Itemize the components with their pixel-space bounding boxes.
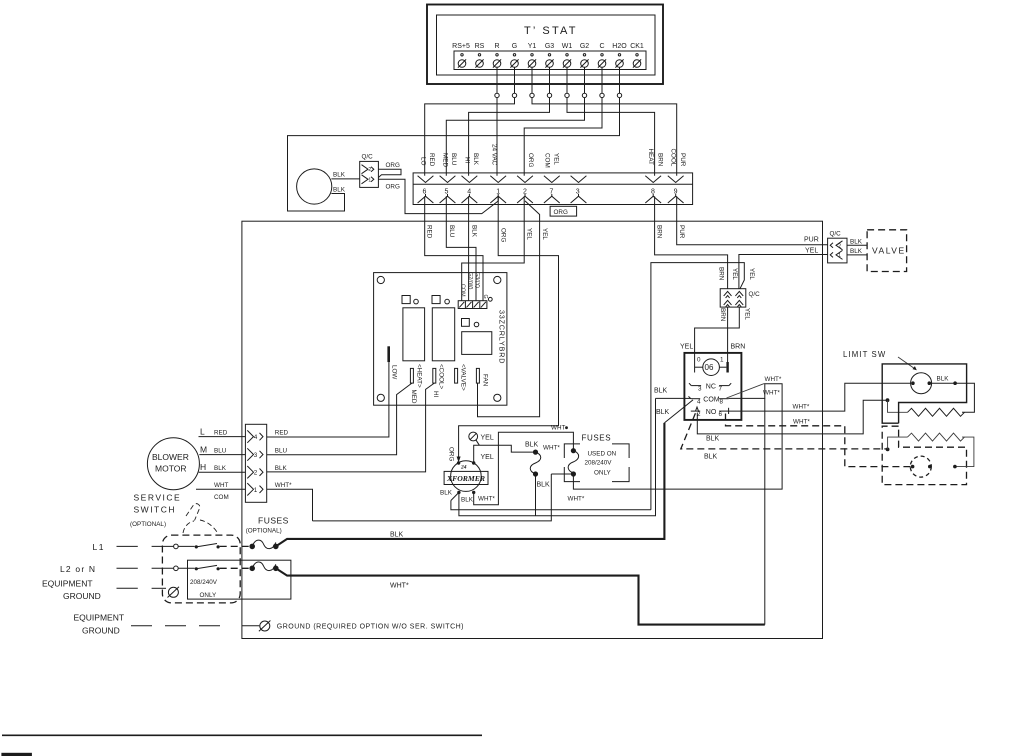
YEL wire transformer to fuse: [474, 445, 535, 463]
footer black bar: [1, 753, 32, 756]
svg-text:G2/(W): G2/(W): [467, 272, 473, 290]
svg-text:PUR: PUR: [804, 237, 819, 244]
blower connector spades 4,3,2,1: [247, 430, 263, 495]
svg-text:BLK: BLK: [440, 490, 453, 497]
WHT* dashed wire to limit 2: [726, 414, 912, 467]
transformer circle: [451, 461, 482, 492]
wire R straight to terminal 1: [496, 98, 498, 176]
svg-text:BLK: BLK: [461, 497, 474, 504]
svg-text:WHT*: WHT*: [390, 583, 409, 590]
svg-text:BRN: BRN: [719, 308, 726, 322]
svg-text:YEL: YEL: [731, 268, 738, 280]
relay NO contacts: [691, 407, 729, 414]
svg-text:YEL: YEL: [680, 344, 693, 351]
wire C jog to terminal 2: [524, 98, 602, 176]
svg-text:24 VAC: 24 VAC: [491, 144, 498, 166]
chassis ground screw: [260, 621, 270, 631]
svg-text:GROUND: GROUND: [82, 626, 120, 636]
transformer top terminals: [457, 461, 460, 464]
svg-text:WHT*: WHT*: [275, 482, 292, 489]
valve Q/C connector: [828, 238, 847, 263]
svg-text:BLU: BLU: [214, 448, 227, 455]
Q/C right terminal spades (YEL): [735, 291, 743, 307]
valve Q/C pin 1 spade: [830, 250, 842, 259]
wire YEL strip2 diagonal to board FAN pin: [478, 201, 540, 417]
thermostat T'STAT inner box: [437, 15, 656, 75]
svg-text:L2 or N: L2 or N: [60, 564, 96, 574]
svg-text:R: R: [494, 43, 499, 50]
wire COOL/HI pin to blower BLK: [267, 383, 435, 472]
element 2 feed thin wire: [888, 437, 908, 449]
svg-text:G2: G2: [580, 43, 589, 50]
svg-text:PUR: PUR: [679, 153, 686, 167]
svg-text:2: 2: [523, 189, 527, 196]
svg-text:WHT*: WHT*: [543, 445, 560, 452]
ground screw upper: [168, 587, 178, 597]
svg-text:4: 4: [697, 399, 701, 406]
svg-text:YEL: YEL: [748, 268, 755, 280]
inducer Q/C connector: [360, 161, 379, 187]
wire LO pin down to blower RED: [267, 362, 389, 437]
svg-text:HI: HI: [464, 157, 471, 164]
svg-text:RED: RED: [428, 153, 435, 167]
ORG label box below strip: [550, 206, 577, 216]
svg-text:9: 9: [674, 189, 678, 196]
svg-text:3: 3: [576, 189, 580, 196]
thermostat T'STAT outer box: [427, 5, 663, 85]
svg-text:YEL: YEL: [553, 153, 560, 165]
Q/C left terminal spades (BRN): [724, 291, 732, 307]
svg-text:G3/(Y): G3/(Y): [474, 272, 480, 288]
footer underline: [2, 734, 482, 736]
L1 switch pole: [174, 544, 179, 549]
svg-text:COOL: COOL: [670, 149, 677, 167]
svg-text:BLK: BLK: [850, 248, 863, 255]
svg-text:ONLY: ONLY: [200, 592, 217, 599]
svg-text:M: M: [200, 445, 207, 455]
thin wire dot down to element 1: [888, 400, 908, 412]
svg-text:33ZCRLYBRD: 33ZCRLYBRD: [498, 310, 507, 364]
svg-text:YEL: YEL: [481, 435, 494, 442]
svg-text:(OPTIONAL): (OPTIONAL): [130, 521, 166, 528]
board small square + led: [462, 319, 470, 327]
svg-text:RED: RED: [426, 225, 433, 239]
svg-text:4: 4: [467, 189, 471, 196]
blower wires L M H COM: [199, 436, 246, 438]
svg-text:NC: NC: [706, 383, 716, 390]
208/240V fuse right: [571, 448, 576, 453]
svg-text:CK1: CK1: [630, 43, 644, 50]
svg-text:USED ON: USED ON: [588, 451, 617, 458]
board component square: [462, 332, 492, 355]
svg-text:BRN: BRN: [731, 344, 746, 351]
svg-text:BLK: BLK: [706, 436, 720, 443]
svg-text:LOW: LOW: [391, 365, 398, 379]
svg-text:C: C: [599, 43, 604, 50]
BRN wire Q/C to relay coil pin1: [727, 307, 729, 363]
svg-text:BRN: BRN: [657, 153, 664, 167]
T'STAT terminal strip box: [454, 51, 646, 70]
BLK net from xformer to relay COM riser: [459, 398, 656, 515]
blower motor circle: [147, 438, 199, 490]
BLK dashed wire relay NO pin2 to element 2: [681, 413, 886, 449]
svg-text:ONLY: ONLY: [594, 470, 611, 477]
service switch dashed box: [162, 535, 240, 603]
svg-text:BLK: BLK: [471, 225, 478, 238]
leader from label to switch: [898, 357, 916, 369]
svg-text:0: 0: [697, 357, 701, 364]
Q/C pin 1 spade: [362, 175, 374, 184]
wire BLU strip5 to board G3(Y): [446, 196, 476, 301]
svg-text:1: 1: [496, 189, 500, 196]
svg-text:RS: RS: [475, 43, 485, 50]
wire PUR strip9 to valve Q/C pin2: [677, 196, 828, 245]
WHT* blower common run: [313, 474, 552, 521]
svg-text:3: 3: [698, 385, 702, 392]
inducer motor: [297, 169, 332, 204]
svg-text:BLK: BLK: [537, 482, 551, 489]
svg-text:XFORMER: XFORMER: [446, 474, 485, 483]
wire RED strip6 to board G: [425, 196, 483, 301]
svg-text:<HEAT>: <HEAT>: [415, 364, 422, 388]
svg-text:HI: HI: [432, 391, 439, 398]
terminal strip spade chevrons top and bottom: [418, 176, 684, 203]
YEL screw terminal: [469, 432, 478, 441]
svg-text:4: 4: [254, 434, 258, 441]
board relay K1: [403, 308, 425, 361]
svg-text:BRN: BRN: [718, 267, 725, 281]
blower connector block: [245, 424, 266, 502]
svg-text:7: 7: [719, 385, 723, 392]
svg-text:Q/C: Q/C: [749, 291, 761, 298]
junction dot element 2 feed: [886, 448, 890, 452]
svg-text:8: 8: [720, 399, 724, 406]
svg-text:BLK: BLK: [656, 409, 670, 416]
wire limit1 to element1 right end: [955, 383, 974, 412]
svg-text:BLK: BLK: [390, 532, 404, 539]
blower WHT* wire to common net: [267, 489, 313, 521]
limit switch 1 circle: [911, 373, 932, 394]
board terminal block led: [488, 297, 492, 301]
svg-text:YEL: YEL: [744, 308, 751, 320]
svg-text:2: 2: [254, 470, 258, 477]
xformer left BLK diagonal: [451, 492, 459, 500]
svg-text:WHT: WHT: [551, 425, 565, 432]
wire YEL strip2 to board COM: [462, 196, 525, 301]
svg-text:WHT*: WHT*: [763, 390, 780, 397]
svg-text:BLK: BLK: [850, 239, 863, 246]
wire W1 jog to terminal 8: [567, 98, 655, 176]
BLK wires Q/C to valve: [847, 244, 867, 246]
svg-text:L: L: [200, 427, 205, 437]
svg-text:ORG: ORG: [554, 209, 568, 216]
limit switch 2 dashed circle: [910, 456, 931, 477]
wire BLK strip4 to board G2(W): [468, 196, 470, 301]
svg-text:RED: RED: [275, 430, 289, 437]
svg-text:COM: COM: [703, 397, 720, 404]
svg-text:LIMIT SW: LIMIT SW: [843, 350, 886, 359]
T'STAT screw terminals (11): [458, 54, 641, 68]
svg-text:BLOWER: BLOWER: [152, 452, 189, 462]
svg-text:MED: MED: [442, 153, 449, 167]
relay board 33ZCRLYBRD outline: [374, 273, 507, 406]
board relay K1 indicator square + led: [402, 296, 410, 304]
svg-text:208/240V: 208/240V: [585, 460, 613, 467]
board 4-screw terminal block: [458, 301, 487, 309]
svg-text:G3: G3: [545, 43, 554, 50]
terminal strip numbers: [423, 189, 678, 196]
L1 BLK feed heavy wire: [276, 423, 665, 547]
svg-text:ORG: ORG: [448, 447, 455, 461]
svg-text:BLK: BLK: [937, 375, 950, 382]
svg-text:ORG: ORG: [386, 162, 400, 169]
board relay K2: [432, 308, 454, 361]
fuse right top wire WHT* to transformer: [474, 432, 574, 505]
plug connector circles: [495, 93, 622, 97]
transformer bottom terminals: [457, 491, 460, 494]
board mounting holes: [377, 276, 384, 283]
big equipment outer box: [242, 221, 823, 638]
svg-text:G: G: [512, 43, 517, 50]
svg-text:1: 1: [838, 253, 841, 259]
svg-text:H2O: H2O: [612, 43, 627, 50]
BLK diagonal wire from L1 feed to relay COM: [664, 400, 693, 423]
L2 WHT* feed heavy wire: [276, 568, 765, 624]
svg-text:NO: NO: [706, 409, 717, 416]
wire BRN strip8 to Q/C: [655, 196, 728, 289]
board HEAT pin: [410, 368, 413, 383]
svg-text:T’ STAT: T’ STAT: [524, 25, 578, 37]
WHT* wire from relay COM pin8 to fuse net: [573, 384, 782, 489]
24V fuse left: [533, 450, 538, 455]
svg-text:6: 6: [423, 189, 427, 196]
T'STAT terminal labels: [452, 43, 644, 50]
wire YEL transformer riser to Q/C upper right: [651, 263, 744, 510]
svg-text:YEL: YEL: [541, 228, 548, 240]
svg-text:BLK: BLK: [654, 388, 668, 395]
dashed link L1 to fuse: [220, 545, 250, 547]
toggle switch icon: [183, 504, 217, 533]
svg-text:BLK: BLK: [704, 454, 718, 461]
fuse left bottom wire to BLK net: [535, 474, 537, 516]
vertical wire colour labels below strip: [426, 225, 686, 242]
svg-text:L1: L1: [93, 542, 105, 552]
Q/C pin 2 spade: [362, 165, 374, 174]
terminal strip midline: [413, 183, 692, 185]
svg-text:WHT*: WHT*: [765, 376, 782, 383]
svg-text:LO: LO: [420, 157, 427, 166]
WHT* leader to relay COM pin8: [727, 384, 765, 399]
svg-text:WHT*: WHT*: [793, 418, 810, 425]
svg-text:COM: COM: [214, 494, 229, 501]
wire ORG strip1 down to transformer: [459, 196, 559, 459]
svg-text:208/240V: 208/240V: [190, 579, 218, 586]
heater 2 dashed box with notch: [882, 426, 966, 484]
svg-text:HEAT: HEAT: [647, 149, 654, 165]
svg-text:6: 6: [719, 411, 723, 418]
svg-text:COM: COM: [460, 284, 466, 297]
board COOL pin: [433, 368, 436, 383]
BLK pigtail on limit 1: [929, 382, 955, 384]
svg-text:<COOL>: <COOL>: [438, 364, 445, 390]
svg-text:YEL: YEL: [805, 248, 818, 255]
arrowhead ORG into transformer terminal: [457, 457, 461, 463]
svg-text:YEL: YEL: [481, 454, 494, 461]
wires from T'STAT screws down to plug circles: [497, 67, 620, 93]
svg-text:MOTOR: MOTOR: [155, 464, 186, 474]
relay COM contacts: [689, 396, 729, 398]
wire G jog to terminal 6: [425, 98, 515, 176]
svg-text:WHT*: WHT*: [568, 496, 585, 503]
svg-text:MED: MED: [410, 390, 417, 404]
BLK wire relay NO pin2 down to heater feed: [697, 400, 886, 434]
svg-text:(OPTIONAL): (OPTIONAL): [246, 528, 282, 535]
transformer XFORMER label box: [444, 471, 488, 484]
L2 switch pole: [174, 566, 179, 571]
svg-text:1: 1: [720, 357, 724, 364]
relay NC contacts: [689, 383, 731, 385]
wire Y1 jog to terminal 9: [532, 98, 677, 176]
junction dot heater 1 feed: [886, 398, 890, 402]
svg-text:2: 2: [368, 167, 371, 173]
svg-text:PUR: PUR: [678, 225, 685, 239]
208/240V ONLY box: [188, 560, 291, 599]
wire G3 jog to terminal 4: [469, 98, 550, 176]
WHT* wire relay NO pin6 to limit switch: [729, 383, 911, 411]
relay coil circle 06: [703, 359, 720, 376]
svg-text:ORG: ORG: [386, 184, 400, 191]
svg-text:1: 1: [254, 487, 258, 494]
FUSES bracket box: [564, 444, 629, 482]
vertical Q/C connector box: [720, 289, 746, 307]
svg-text:RS+5: RS+5: [452, 43, 470, 50]
dashed lead to chassis ground: [131, 625, 259, 627]
heater element 2 zigzag: [908, 433, 965, 441]
svg-text:W1: W1: [562, 43, 573, 50]
svg-text:EQUIPMENT: EQUIPMENT: [74, 613, 125, 623]
fuse L1: [249, 544, 255, 550]
svg-text:RED: RED: [214, 430, 228, 437]
fuse L2: [249, 566, 255, 572]
svg-text:BLK: BLK: [333, 187, 346, 194]
svg-text:1: 1: [368, 177, 371, 183]
svg-text:BLK: BLK: [275, 465, 288, 472]
board VALVE pin: [455, 368, 458, 383]
svg-text:06: 06: [705, 363, 714, 372]
svg-text:YEL: YEL: [526, 228, 533, 240]
wire G2 jog to terminal 5: [446, 98, 584, 176]
ORG folded stub from Q/C pin 2: [378, 169, 401, 177]
svg-text:WHT*: WHT*: [478, 496, 495, 503]
vertical wire colour labels above strip: [420, 144, 687, 168]
svg-text:Y1: Y1: [528, 43, 537, 50]
svg-text:FUSES: FUSES: [258, 516, 289, 526]
svg-text:EQUIPMENT: EQUIPMENT: [42, 579, 93, 589]
svg-text:5: 5: [444, 189, 448, 196]
svg-text:2: 2: [838, 243, 841, 249]
svg-text:Q/C: Q/C: [830, 231, 842, 238]
ORG wire from Q/C pin 1 to strip terminal 1: [378, 179, 498, 213]
svg-text:ORG: ORG: [500, 228, 507, 242]
svg-text:BLK: BLK: [214, 465, 227, 472]
svg-text:FUSES: FUSES: [582, 434, 612, 443]
svg-text:WHT*: WHT*: [793, 404, 810, 411]
relay 06 box: [684, 353, 741, 420]
board relay K2 indicator square + led: [432, 296, 440, 304]
svg-text:BLK: BLK: [525, 441, 539, 448]
svg-text:SERVICE: SERVICE: [134, 493, 182, 503]
wire YEL valve Q/C pin1: [739, 255, 828, 289]
inducer BLK wire to Q/C pin 1: [331, 178, 359, 180]
svg-text:H: H: [200, 462, 206, 472]
BLK wire from transformer to relay COM left: [656, 397, 685, 399]
svg-text:BLU: BLU: [448, 225, 455, 238]
wire HEAT/MED pin to blower BLU: [267, 383, 412, 455]
svg-text:GROUND (REQUIRED OPTION W/O SE: GROUND (REQUIRED OPTION W/O SER. SWITCH): [277, 624, 464, 631]
svg-text:BLU: BLU: [275, 448, 288, 455]
svg-text:GROUND: GROUND: [63, 591, 101, 601]
terminal strip box: [413, 173, 692, 205]
svg-text:SWITCH: SWITCH: [134, 505, 177, 515]
svg-text:Q/C: Q/C: [362, 154, 374, 161]
svg-text:VALVE: VALVE: [872, 246, 906, 256]
heater element 1 zigzag: [908, 408, 965, 416]
heater assembly 1 box: [882, 364, 966, 423]
board terminal labels COM G2/(W) G3/(Y) G: [460, 272, 488, 299]
svg-text:FAN: FAN: [481, 374, 488, 387]
VALVE dashed box: [867, 230, 907, 272]
svg-text:BLK: BLK: [472, 153, 479, 166]
board LO pin: [387, 346, 390, 362]
svg-text:BLU: BLU: [450, 153, 457, 166]
wire H2O jog left to inducer loop: [288, 98, 620, 211]
svg-text:<VALVE>: <VALVE>: [460, 364, 467, 391]
WHT* vertical junction down to bottom run: [764, 398, 766, 624]
svg-text:24: 24: [460, 464, 467, 470]
YEL wire Q/C to relay coil pin0: [695, 307, 740, 353]
svg-text:ORG: ORG: [527, 153, 534, 167]
svg-text:G: G: [482, 295, 488, 299]
board FAN pin: [476, 368, 479, 383]
svg-text:7: 7: [549, 189, 553, 196]
valve Q/C pin 2 spade: [830, 241, 842, 250]
YEL net horizontal to Q/C riser: [451, 501, 651, 510]
svg-text:8: 8: [651, 189, 655, 196]
svg-text:BRN: BRN: [656, 225, 663, 239]
svg-text:WHT: WHT: [214, 482, 228, 489]
svg-text:BLK: BLK: [333, 172, 346, 179]
wire element2 right to limit2: [955, 437, 974, 467]
svg-text:COM: COM: [544, 153, 551, 168]
svg-text:3: 3: [254, 452, 258, 459]
